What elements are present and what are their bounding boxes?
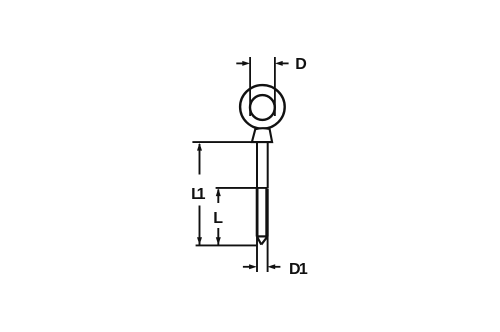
eye outer circle xyxy=(240,85,285,129)
D1 arrow left tail xyxy=(243,266,250,268)
L1 dimension line xyxy=(199,144,201,245)
svg-text:L: L xyxy=(213,210,223,227)
L arrowhead up xyxy=(216,188,221,196)
L top extension line / thread start xyxy=(216,187,268,189)
svg-text:1: 1 xyxy=(299,261,308,278)
D arrow right xyxy=(282,62,289,64)
D arrow left xyxy=(236,62,243,64)
L1 arrowhead down xyxy=(197,237,202,245)
L1 top extension line / collar base line xyxy=(192,141,253,143)
D arrowhead left xyxy=(242,61,250,66)
L dimension line xyxy=(217,190,219,245)
svg-text:1: 1 xyxy=(197,186,206,203)
D extension line right xyxy=(274,57,276,116)
eye inner circle xyxy=(250,95,275,120)
D1 arrow right tail xyxy=(275,266,281,268)
L1 arrowhead up xyxy=(197,143,202,151)
D1 extension line left xyxy=(256,237,258,273)
threaded section xyxy=(256,189,259,237)
D arrowhead right xyxy=(275,61,283,66)
D extension line left xyxy=(249,57,251,116)
L arrowhead down xyxy=(216,237,221,245)
D1 arrowhead right xyxy=(268,264,276,269)
D1 extension line right xyxy=(267,237,269,273)
shank plain section xyxy=(257,142,268,188)
bottom extension line xyxy=(196,244,257,246)
svg-text:D: D xyxy=(295,56,307,73)
thread chamfer line xyxy=(257,235,267,237)
collar xyxy=(252,128,272,142)
tip point xyxy=(257,237,267,245)
D1 arrowhead left xyxy=(249,264,257,269)
